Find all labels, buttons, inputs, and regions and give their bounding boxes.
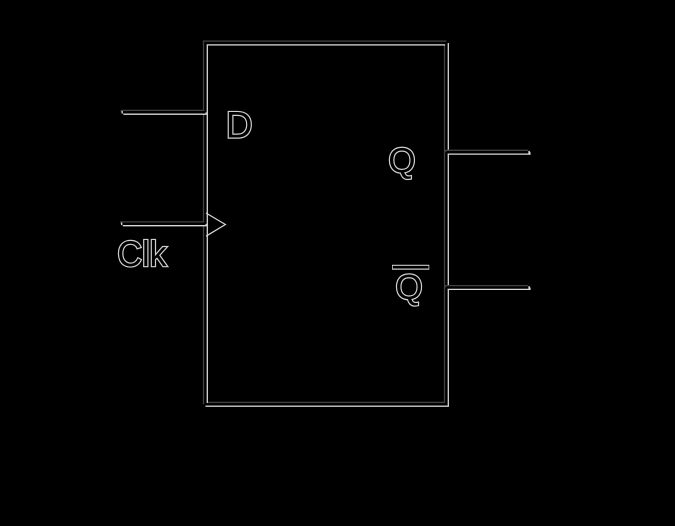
overline of Qbar [392, 265, 429, 270]
label D [229, 112, 251, 137]
flip-flop body U1 [204, 42, 448, 406]
wire Qbar output [445, 286, 530, 289]
wire D input [121, 111, 207, 114]
label Clk [119, 240, 167, 266]
clock edge triangle [206, 213, 225, 236]
wire Q output [445, 151, 530, 154]
wire Clk input [120, 223, 207, 226]
label Qbar glyph [397, 274, 421, 305]
label Q [390, 148, 414, 179]
